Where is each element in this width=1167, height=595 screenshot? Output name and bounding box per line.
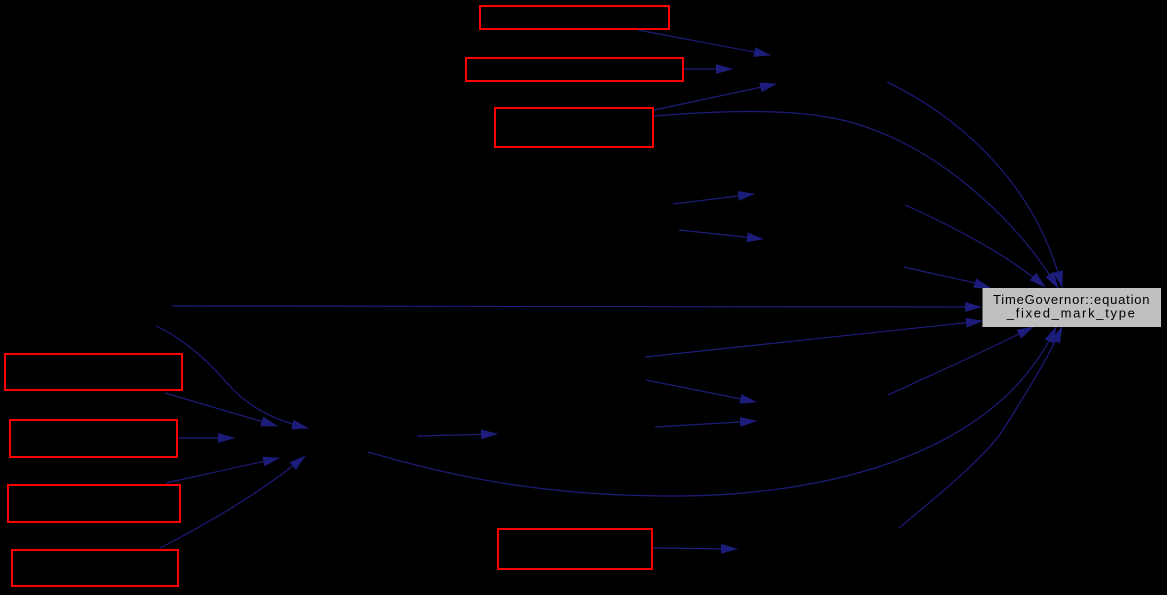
- caller box T3 (red, truncated label): [495, 108, 653, 147]
- edge: invisible node N6b -> invisible node N6 (ascending): [655, 421, 756, 427]
- edge: box L4 -> invisible node V1 (bottom): [160, 456, 305, 548]
- edge: invisible node N3 -> invisible node N4a: [673, 194, 754, 204]
- edge: invisible caller -> invisible node V1 (curved from upper left): [156, 326, 308, 428]
- edge: box T2 -> invisible node Q0: [684, 68, 732, 70]
- edge: long horizontal caller -> TimeGovernor::equation_fixed_mark_type (left edge): [172, 306, 981, 307]
- function node TimeGovernor::equation_fixed_mark_type (gray): [983, 288, 1162, 327]
- edge: box B5 -> invisible node N7: [653, 548, 737, 549]
- caller box L3 (red, truncated label): [8, 485, 180, 522]
- caller box B5 (red, truncated label): [498, 529, 652, 569]
- svg-text:_fixed_mark_type: _fixed_mark_type: [1006, 306, 1137, 321]
- edge C: invisible node N4a -> TimeGovernor::equation_fixed_mark_type (top): [905, 205, 1045, 287]
- edge: box L2 -> invisible node W1: [178, 437, 234, 439]
- edge R: invisible node V2 -> TimeGovernor::equation_fixed_mark_type (long bottom sweep): [368, 327, 1056, 496]
- caller box T2 (red, truncated label): [466, 58, 683, 81]
- caller box T1 (red, truncated label): [480, 6, 669, 29]
- edge: invisible node N5 -> invisible node N6 (descending): [646, 380, 756, 402]
- caller box L4 (red, truncated label): [12, 550, 178, 586]
- edge: invisible node N3 -> invisible node N4b: [679, 230, 763, 239]
- caller box L2 (red, truncated label): [10, 420, 177, 457]
- edge: invisible node V2 -> invisible node W2: [417, 434, 497, 436]
- edge S: invisible node N7 -> TimeGovernor::equation_fixed_mark_type (bottom, steep): [899, 327, 1062, 528]
- edge D: invisible node N4b -> TimeGovernor::equation_fixed_mark_type (top-left corner): [904, 267, 990, 288]
- edge: box T1 -> invisible node Q1: [638, 30, 770, 55]
- edge: box L1 -> invisible node V1: [165, 393, 277, 426]
- edge: box T3 -> invisible node Q1 (upper branch): [654, 84, 776, 110]
- caller box L1 (red, truncated label): [5, 354, 182, 390]
- edge: box L3 -> invisible node V1 (lower): [166, 458, 279, 483]
- edge: invisible node N5 -> TimeGovernor::equation_fixed_mark_type (left edge low): [645, 321, 982, 357]
- edge B: box T3 -> TimeGovernor::equation_fixed_mark_type (long top curve): [654, 111, 1058, 288]
- edge Q: invisible node -> TimeGovernor::equation_fixed_mark_type (bottom): [888, 327, 1033, 395]
- edge A: invisible node Q1 -> TimeGovernor::equation_fixed_mark_type (top, steep): [887, 82, 1062, 287]
